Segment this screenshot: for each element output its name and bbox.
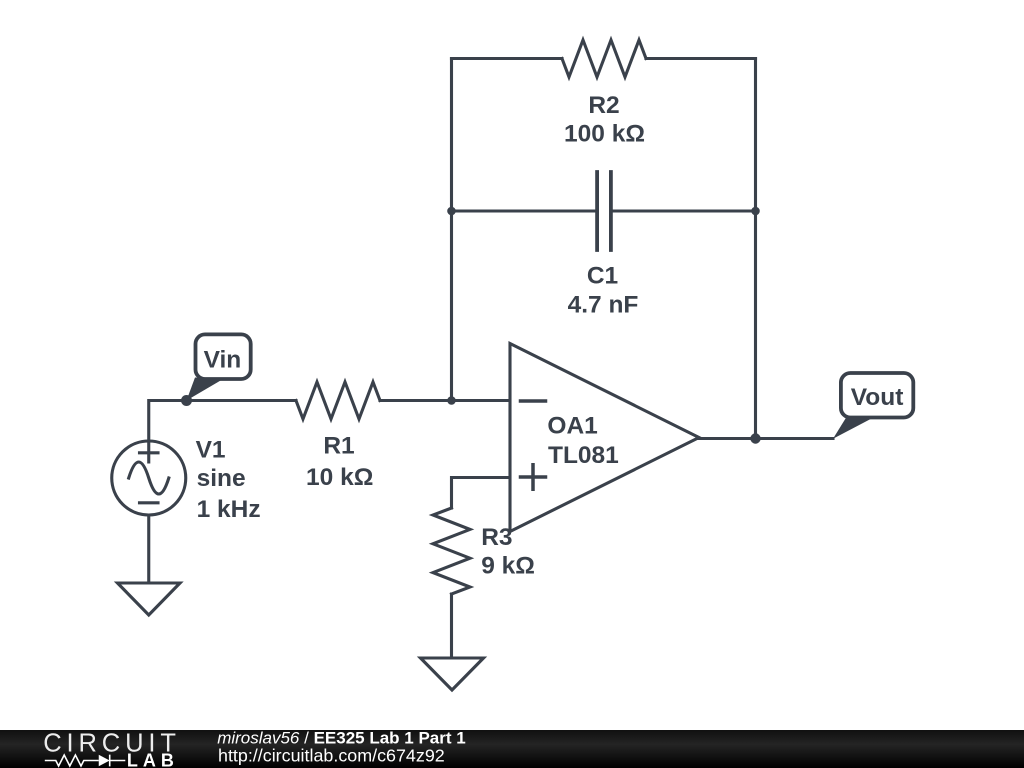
wire op-amp output to Vout [699,437,833,440]
svg-text:9 kΩ: 9 kΩ [481,553,535,580]
svg-text:http://circuitlab.com/c674z92: http://circuitlab.com/c674z92 [218,746,445,766]
svg-text:10 kΩ: 10 kΩ [306,464,373,491]
wire capacitor right [613,209,756,212]
flag Vin pointer wedge [187,378,225,401]
resistor R3 [433,508,470,594]
svg-text:Vin: Vin [204,347,242,374]
wire capacitor left [452,209,596,212]
ground below V1 [118,583,181,615]
wire top-right (R2 loop top) [646,57,756,60]
terminal dot Vin node [181,395,192,406]
svg-text:R3: R3 [481,524,512,551]
wire V1 to R1 [149,401,296,442]
footer bar [0,730,1024,768]
svg-text:V1: V1 [196,436,226,463]
junction dot node A (left, capacitor) [447,207,456,216]
svg-text:R1: R1 [323,433,354,460]
junction dot inverting node [447,396,456,405]
junction dot node B (right, capacitor) [751,207,760,216]
svg-text:TL081: TL081 [548,442,619,469]
wire left vertical (inverting node to feedback) [450,59,453,401]
svg-text:Vout: Vout [851,384,904,411]
wire op-amp non-inverting input to R3 [452,478,511,509]
svg-text:1 kHz: 1 kHz [197,496,261,523]
wire R1 to op-amp inverting input [380,399,510,402]
op-amp minus symbol [521,399,546,403]
resistor R1 [296,382,380,419]
voltage source V1 (sine) [112,441,186,515]
flag box Vout [841,373,913,418]
svg-text:100 kΩ: 100 kΩ [564,121,645,148]
wire top-left (R2 loop top) [452,57,563,60]
flag Vout pointer wedge [833,418,873,439]
resistor R2 [562,40,646,77]
svg-text:4.7 nF: 4.7 nF [568,292,639,319]
capacitor C1 [597,172,611,250]
svg-text:LAB: LAB [127,750,179,768]
footer logo resistor-diode glyph [45,755,126,767]
svg-text:OA1: OA1 [547,412,597,439]
svg-text:R2: R2 [588,92,619,119]
flag box Vin [196,334,251,379]
svg-text:C1: C1 [587,263,618,290]
op-amp OA1 triangle [510,344,699,532]
wire R3 to ground [450,594,453,658]
ground below R3 [421,658,484,690]
wire right vertical (output to feedback) [754,59,757,439]
junction dot output node [750,433,760,443]
op-amp plus symbol [521,465,546,490]
wire V1 bottom stem [147,515,150,584]
svg-text:sine: sine [197,465,246,492]
